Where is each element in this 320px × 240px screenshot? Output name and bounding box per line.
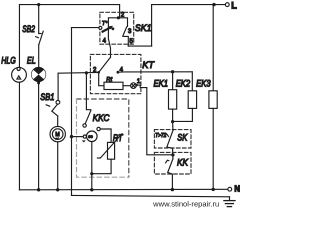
wire motor to bottom rail: [57, 142, 59, 190]
switch SB2: [36, 31, 44, 45]
svg-text:L: L: [231, 0, 237, 10]
wire SB1 to motor: [57, 116, 59, 126]
KKC small triangle mark: [82, 140, 86, 142]
KT pin 4 fixed contact dot: [117, 71, 120, 74]
wire HLG bottom to rail: [18, 82, 20, 190]
node dot EK1 top feed: [171, 70, 174, 73]
wire long vertical from SK1 arm down to ground line: [71, 28, 73, 196]
svg-text:Rt: Rt: [106, 77, 112, 83]
wire SB2 to EL: [38, 45, 40, 68]
wire SK1 pin5 to right rail: [128, 45, 151, 47]
svg-text:T>72: T>72: [155, 133, 166, 139]
svg-text:EL: EL: [27, 55, 36, 66]
KKC blade terminal circle: [83, 124, 86, 127]
SK1 node dot near arrow tip: [112, 27, 115, 30]
terminal L circle: [225, 3, 229, 7]
wire RT bottom loop to coil bottom: [92, 159, 111, 174]
KKC coil top right terminal circle: [97, 127, 100, 130]
thermostat SK1 dashed box: [100, 12, 134, 44]
relay KKC dashed box: [77, 99, 129, 177]
wire SB2 branch down: [38, 5, 40, 34]
node dot EK1 EK2 bottom join: [171, 120, 174, 123]
wire mid corner down to SB1: [57, 73, 59, 100]
SK1 pin2 node dot: [117, 16, 120, 19]
node dot M line at rail: [56, 188, 59, 191]
wire bottom rail N: [19, 188, 227, 191]
wire ground line along bottom: [72, 195, 230, 196]
node dot below EL: [37, 81, 40, 84]
svg-text:SB1: SB1: [40, 92, 54, 103]
svg-text:EK1: EK1: [154, 79, 169, 90]
node L junction dot: [212, 3, 215, 6]
wire top rail left segment: [19, 5, 119, 18]
resistor Rt: [99, 72, 131, 89]
heater EK2: [173, 72, 197, 122]
protector RT rect with diagonal: [97, 134, 122, 160]
fuse SK dashed box: [154, 130, 191, 148]
svg-text:~: ~: [56, 136, 59, 141]
node dot EK3 at rail: [212, 188, 215, 191]
wire mid horizontal to KT pivot: [58, 71, 99, 74]
fuse KK contact: [166, 155, 173, 190]
thermostat KT dashed box: [90, 54, 140, 93]
timer motor symbol circle with cross: [131, 83, 137, 89]
KT pin 1 node dot: [135, 84, 138, 87]
wire SK1 west arm: [72, 27, 100, 29]
ground symbol: [224, 197, 235, 207]
svg-text:SK: SK: [177, 132, 188, 143]
wire top rail right segment: [152, 5, 226, 47]
lamp EL: [32, 68, 46, 82]
switch SB1: [46, 100, 60, 116]
svg-text:EK2: EK2: [176, 79, 191, 90]
node SB2 branch dot: [37, 3, 40, 6]
wire KKC contact drop: [86, 73, 90, 110]
wire timer motor to SK KK node: [137, 85, 173, 155]
node dot coil RT join: [90, 172, 93, 175]
wire KKC to bottom rail: [91, 174, 93, 190]
relay coil KKC circle: [87, 131, 98, 142]
motor M compressor: [50, 126, 65, 141]
svg-text:KT: KT: [142, 60, 155, 71]
wire KT pin4 to heaters EK1 EK2: [118, 71, 192, 73]
svg-text:SK1: SK1: [135, 23, 152, 34]
KKC contact blade: [85, 111, 91, 124]
svg-text:∞: ∞: [88, 134, 93, 141]
heater EK3: [209, 5, 217, 190]
lamp HLG: [12, 67, 27, 82]
SK1 left arm to pin 4 and KT blade riser: [108, 18, 118, 57]
SK1 blade 3 to 5: [123, 27, 128, 46]
node dot KKC coil feed: [70, 135, 73, 138]
svg-text:RT: RT: [113, 133, 124, 144]
node dot KKC branch on mid wire: [85, 71, 88, 74]
node dot KK at rail: [171, 188, 174, 191]
svg-text:www.stinol-repair.ru: www.stinol-repair.ru: [152, 200, 219, 209]
heater EK1: [169, 72, 177, 122]
node dot KKC at rail: [90, 188, 93, 191]
fuse SK contact: [167, 122, 174, 155]
wire coil bottom: [91, 142, 93, 174]
wire left rail drop to HLG: [18, 5, 20, 68]
terminal N circle: [228, 187, 232, 191]
svg-text:HLG: HLG: [1, 55, 16, 66]
SK1 contact arm black arrow: [103, 26, 113, 32]
wire coil to RT: [100, 129, 111, 142]
svg-text:EK3: EK3: [196, 79, 211, 90]
KT blade: [99, 57, 111, 72]
SK1 right arm pin 3 post: [118, 18, 127, 27]
node dot EL line at rail: [37, 188, 40, 191]
svg-text:KK: KK: [177, 157, 189, 168]
SK1 terminal circle west: [99, 26, 102, 29]
wire EL to bottom rail: [38, 82, 40, 190]
svg-text:N: N: [234, 185, 240, 194]
KT pivot node dot: [97, 71, 100, 74]
svg-text:T°: T°: [102, 21, 108, 27]
wire KKC feed from long vertical: [72, 136, 84, 138]
svg-text:KKC: KKC: [93, 113, 110, 124]
node dot SK KK junction: [171, 153, 174, 156]
fuse KK dashed box: [154, 152, 191, 174]
svg-text:SB2: SB2: [22, 24, 35, 35]
KKC feed terminal circle: [83, 135, 86, 138]
